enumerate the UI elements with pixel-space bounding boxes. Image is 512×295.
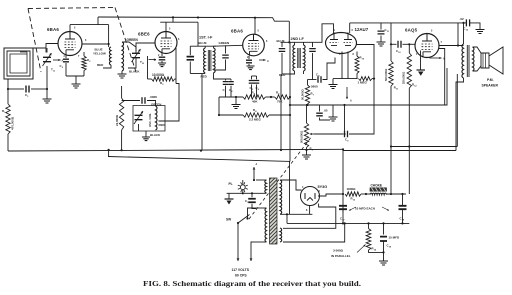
wire 6AQ5 screen down	[439, 49, 445, 106]
2nd IF right capacitor	[312, 42, 314, 47]
resistor R11 500,000	[389, 61, 393, 86]
svg-text:PL: PL	[229, 182, 233, 186]
svg-text:.05: .05	[324, 109, 328, 113]
wire wiper to C9	[314, 133, 343, 135]
svg-text:FIG. 8. Schematic diagram of t: FIG. 8. Schematic diagram of the receive…	[143, 280, 361, 288]
tube V5 6AQ5	[415, 34, 439, 58]
wiper arrow R8	[310, 133, 314, 135]
oscillator trimmer capacitor	[135, 115, 143, 119]
wire RF coil bottom	[103, 65, 111, 68]
oscillator coil	[156, 106, 158, 130]
svg-text:BLUE: BLUE	[199, 41, 207, 45]
svg-text:1ST. I-F: 1ST. I-F	[199, 36, 213, 40]
svg-text:A: A	[62, 60, 64, 63]
svg-text:1800Ω: 1800Ω	[347, 187, 357, 191]
wire secondary return	[456, 74, 458, 147]
2nd IF left capacitor	[281, 42, 283, 47]
svg-text:10,000Ω: 10,000Ω	[152, 73, 165, 77]
tube V3 6BA6	[243, 34, 265, 56]
wire x344.5 bus to wiper line	[344, 105, 346, 134]
wire HV bottom to B- bus	[286, 214, 288, 223]
2nd IF top wire	[281, 41, 314, 43]
2nd IF core	[297, 48, 299, 68]
rectifier filament winding	[280, 228, 282, 242]
resistor R10 cathode	[356, 52, 358, 57]
wire loop inner tap	[20, 52, 27, 54]
svg-text:A: A	[350, 100, 352, 103]
heater feed arrow up	[253, 178, 255, 180]
wire rail down to RF coil	[108, 25, 110, 47]
svg-text:2ND I-F: 2ND I-F	[291, 37, 305, 41]
capacitor C4	[230, 79, 232, 81]
svg-text:3-560Ω: 3-560Ω	[333, 249, 344, 253]
svg-text:SPEAKER: SPEAKER	[482, 84, 499, 88]
svg-text:6BE6: 6BE6	[138, 32, 150, 37]
svg-text:10 MFD EACH: 10 MFD EACH	[355, 207, 375, 211]
resistor R13 1800 ohm	[345, 192, 361, 196]
heater winding 6.3V	[265, 180, 267, 193]
wire V3 plate to bus	[254, 18, 256, 35]
heater arrow V2	[149, 59, 157, 61]
wire TB bottom black	[128, 58, 136, 68]
ground 6AQ5 cathode	[417, 69, 426, 71]
capacitor C13 .02	[466, 19, 469, 26]
resistor R5 40K	[219, 96, 243, 98]
svg-text:OSC. COIL: OSC. COIL	[148, 113, 152, 127]
resistor 22,000 grid osc	[121, 86, 123, 98]
svg-text:.0068: .0068	[150, 95, 158, 99]
wires 5V filament to 5Y3G	[283, 204, 336, 229]
svg-text:GREEN: GREEN	[127, 38, 139, 42]
wire V1 plate to rail	[69, 25, 71, 32]
tube V1 6BA6	[58, 32, 82, 56]
RF transformer secondary coil	[122, 42, 124, 71]
6AQ5 cathode wire	[420, 51, 422, 71]
wire grid V1	[46, 44, 58, 49]
dashed loop-antenna panel outline	[28, 8, 115, 9]
svg-text:5Y3G: 5Y3G	[318, 185, 328, 189]
speaker cone	[489, 47, 503, 74]
wire R13 to choke	[361, 193, 370, 195]
svg-text:IN PARALLEL: IN PARALLEL	[331, 254, 351, 258]
filter capacitor C18	[402, 194, 404, 206]
ground RF secondary	[121, 71, 123, 74]
line from audio B+ rail	[392, 146, 457, 148]
capacitor C10 coupling to 6AQ5	[398, 41, 401, 48]
svg-text:500,000Ω: 500,000Ω	[384, 68, 388, 81]
capacitor C6	[256, 76, 258, 79]
wire R14 C19 join ground	[369, 250, 384, 252]
capacitor C11 decoupling	[380, 23, 382, 30]
1st IF top wire	[190, 45, 216, 47]
capacitor C3	[225, 79, 227, 81]
svg-text:A: A	[256, 163, 258, 166]
resistor R2 cathode V1	[83, 52, 85, 56]
wire R1 to AVC bus	[7, 134, 9, 151]
wire 1st IF secondary top to V3 grid	[214, 44, 243, 47]
wire loop to tuning cap	[33, 48, 46, 53]
wire TB to grid V2	[136, 43, 155, 53]
wire primary bottom to line cord	[251, 242, 252, 248]
wires HV to 5Y3G	[280, 180, 302, 190]
wire secondary top to TB	[122, 42, 136, 51]
svg-text:6AQ5: 6AQ5	[405, 28, 418, 33]
1st IF secondary coil	[214, 48, 216, 73]
svg-text:A: A	[267, 60, 269, 63]
wire 2nd IF red AVC	[281, 74, 282, 150]
svg-text:GREEN: GREEN	[219, 41, 230, 45]
wire rail V2 to bus	[172, 17, 174, 22]
variable capacitor TA	[43, 57, 51, 61]
resistor 1 MEG grid	[359, 77, 373, 81]
wire 6AQ5 plate	[439, 45, 464, 47]
wire plate2 to bus	[349, 23, 351, 33]
wire bus down to 2nd IF	[288, 21, 290, 42]
wire B- up to chassis bus	[289, 161, 291, 214]
svg-text:YELLOW: YELLOW	[93, 52, 106, 56]
box below V2 right	[175, 48, 177, 79]
HV secondary winding	[280, 180, 282, 214]
svg-text:250,000Ω: 250,000Ω	[402, 71, 406, 84]
svg-text:6BA6: 6BA6	[47, 27, 59, 32]
cathode wires 12AU7	[341, 52, 343, 79]
wire primary bottom	[456, 78, 464, 151]
rail above V1	[70, 24, 109, 26]
vertical link buses	[108, 150, 110, 157]
ground R5 line	[235, 97, 237, 105]
heater arrow V3	[259, 59, 266, 61]
RF transformer primary coil	[109, 47, 111, 65]
ground oscillator	[145, 131, 147, 137]
oscillator coil box	[133, 106, 165, 132]
wire V2 plate top	[165, 22, 167, 31]
variable capacitor TB	[132, 53, 140, 57]
2nd IF secondary coil	[304, 45, 306, 71]
wire TA to junction	[46, 66, 48, 89]
capacitor C14 line bypass	[251, 193, 253, 197]
wire switch to line cord	[237, 223, 239, 248]
B+ return bus right	[343, 150, 456, 152]
wire osc black to ground bus	[138, 124, 140, 131]
svg-text:CHOKE: CHOKE	[371, 184, 383, 188]
V3 cathode capacitor and ground	[248, 56, 250, 59]
output transformer primary	[463, 23, 465, 44]
box below V2 left	[147, 56, 149, 79]
svg-text:50,000Ω: 50,000Ω	[301, 88, 305, 100]
wire loop bottom to C1	[7, 79, 9, 89]
heater arrow 6AQ5	[430, 57, 442, 59]
wire R11 bottom to B+ rail	[390, 86, 392, 194]
svg-text:1 MEG: 1 MEG	[358, 81, 368, 85]
resistor R14 bias 3-560 in parallel	[367, 222, 369, 224]
wire 22k to AVC bus	[121, 130, 123, 150]
capacitor C5	[251, 76, 253, 79]
top B+ bus	[98, 17, 289, 21]
svg-text:.02: .02	[460, 17, 465, 21]
wire rail to 1st IF	[197, 22, 199, 46]
1st IF left capacitor	[189, 46, 191, 55]
svg-text:60 CPS: 60 CPS	[235, 274, 247, 278]
1st IF tuning capacitor	[225, 45, 227, 53]
svg-text:117 VOLTS: 117 VOLTS	[232, 268, 250, 272]
wire PL leads	[242, 180, 244, 185]
capacitor C9 coupling	[345, 131, 348, 138]
ground at audio bus	[332, 105, 334, 117]
volume potentiometer R8 500,000	[306, 104, 308, 123]
2nd IF primary coil	[293, 45, 295, 71]
ground C13	[476, 30, 485, 34]
svg-text:RED: RED	[159, 123, 165, 127]
svg-text:12AU7: 12AU7	[355, 27, 369, 32]
wire bus down to R11	[390, 23, 392, 61]
svg-text:500,000Ω: 500,000Ω	[300, 130, 304, 143]
HV bottom wire	[280, 213, 312, 215]
svg-text:BLACK: BLACK	[150, 133, 161, 137]
tube V4 12AU7	[326, 33, 357, 54]
AVC bus	[8, 149, 343, 151]
B- bus bottom	[287, 222, 409, 224]
capacitor C19 15 MFD	[382, 222, 384, 224]
svg-text:P.M.: P.M.	[487, 78, 494, 82]
svg-text:RED: RED	[97, 63, 104, 67]
1st IF core	[207, 50, 209, 71]
resistor R6 75K	[265, 96, 274, 98]
wire choke output	[387, 193, 407, 195]
B- bus	[108, 157, 290, 162]
ganged switch dashed link	[249, 136, 312, 219]
loop antenna L1	[4, 48, 33, 79]
filter capacitor C17	[339, 206, 347, 209]
audio bus y=105	[290, 68, 447, 105]
tube V6 5Y3G	[301, 187, 320, 206]
output transformer core	[466, 45, 468, 77]
capacitor C1	[8, 88, 24, 90]
resistor R7 50,000	[307, 80, 309, 86]
ground below R8	[306, 148, 308, 156]
resistor R12 250,000 grid	[408, 43, 410, 45]
1st IF bottom wire	[190, 73, 205, 75]
output transformer secondary	[473, 47, 475, 71]
rail above V2	[160, 21, 198, 23]
capacitor C2 cathode V1	[65, 55, 67, 58]
svg-text:5600: 5600	[311, 85, 318, 89]
1st IF primary coil	[204, 48, 206, 73]
svg-text:2.2 MEG: 2.2 MEG	[249, 118, 262, 122]
svg-text:6BA6: 6BA6	[231, 29, 243, 34]
svg-text:A: A	[154, 59, 156, 62]
wire x343 down to filter	[342, 149, 344, 212]
heater arrow 12AU7	[346, 87, 348, 99]
cathode rail 12AU7	[333, 78, 358, 80]
svg-text:A: A	[443, 58, 445, 61]
wire 1st IF secondary bottom	[214, 73, 232, 79]
resistor R1 470,000	[7, 89, 9, 104]
wire primary to switch	[248, 208, 253, 219]
svg-text:15 MFD: 15 MFD	[389, 236, 401, 240]
ground on heater line	[228, 193, 230, 199]
ground below TA	[46, 89, 48, 99]
wire secondary to voice coil	[473, 47, 482, 53]
svg-text:470,000Ω: 470,000Ω	[11, 116, 15, 130]
speaker voice coil	[481, 53, 489, 68]
capacitor C osc screen + ground	[161, 52, 163, 56]
wire V1 plate to RF coil	[82, 43, 109, 45]
svg-text:75K: 75K	[277, 100, 283, 104]
wire grid line 6AQ5	[391, 43, 397, 45]
wire rail to top bus	[97, 17, 99, 25]
primary winding	[265, 208, 267, 242]
resistor R3 10,000 ohm	[148, 78, 152, 80]
cathode rail V1 and ground	[66, 75, 84, 77]
capacitor .05 and ground	[319, 105, 321, 112]
5Y3G bottom pin	[309, 205, 311, 214]
wire plate1 to 2nd IF B+	[314, 24, 334, 43]
tube V2 6BE6	[155, 32, 177, 54]
line cord arrows	[237, 248, 239, 261]
svg-text:BLACK: BLACK	[129, 70, 140, 74]
heater arrow V1	[53, 59, 61, 61]
junction dots antenna	[7, 88, 9, 90]
capacitor C7 .0068 osc	[122, 100, 140, 102]
long vertical feed x=290	[289, 42, 291, 161]
wire osc red lead	[159, 84, 180, 122]
ground 12AU7 cathode	[332, 79, 334, 85]
svg-text:SW: SW	[226, 218, 231, 222]
resistor R4 2.2 MEG AVC	[218, 97, 220, 115]
wire 2nd IF secondary bottom	[282, 71, 295, 74]
svg-text:40K: 40K	[252, 100, 258, 104]
capacitor C8 5600	[308, 79, 317, 81]
right B+ bus	[350, 22, 466, 24]
wire 5Y3G cathode output	[318, 194, 343, 196]
svg-text:22,000Ω: 22,000Ω	[115, 114, 119, 126]
wire 1st IF red AVC	[201, 74, 203, 151]
wire R12 bottom down	[408, 88, 410, 194]
